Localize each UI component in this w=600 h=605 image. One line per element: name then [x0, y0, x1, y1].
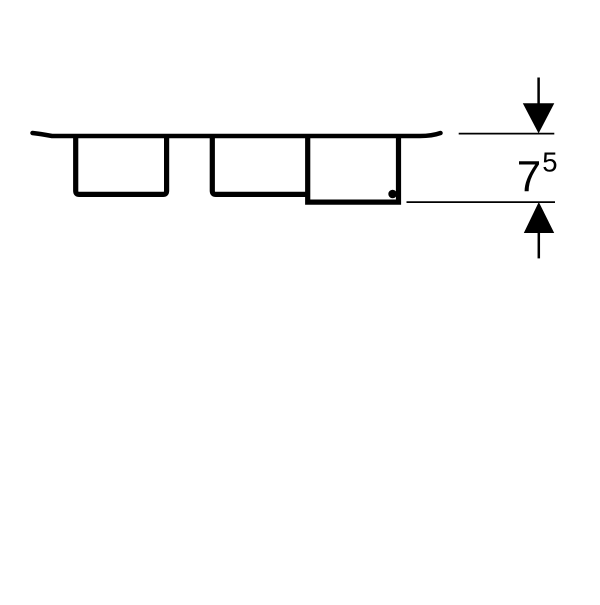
drawer box 1 [76, 135, 167, 194]
fastening dot on box 3 [388, 190, 397, 199]
lower extension line [407, 201, 556, 203]
drawer box 3 [308, 135, 399, 202]
drawer box 2 [212, 135, 307, 194]
upper dimension arrow leader [537, 78, 540, 105]
lower dimension arrowhead (up) [524, 202, 554, 233]
lower dimension arrow leader [538, 233, 541, 258]
svg-text:5: 5 [542, 147, 557, 178]
upper dimension arrowhead (down) [523, 103, 555, 133]
upper extension line [459, 133, 555, 135]
svg-text:7: 7 [517, 153, 541, 202]
countertop profile (side view) [33, 133, 441, 136]
